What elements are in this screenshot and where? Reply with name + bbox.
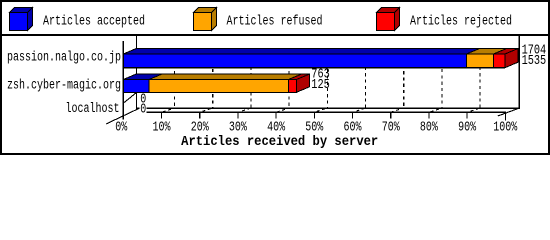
svg-text:10%: 10% [153,120,172,135]
gridline 90% [479,48,481,108]
svg-text:90%: 90% [458,120,477,135]
gridline 50% [326,48,328,108]
x tick 20% [199,113,201,119]
legend cube red rejected [377,8,400,31]
legend cube blue accepted [10,8,33,31]
gridline 40% [288,48,290,108]
gridline 30% [250,48,252,108]
svg-text:0: 0 [140,103,146,118]
svg-text:80%: 80% [420,120,439,135]
svg-text:localhost: localhost [66,102,120,117]
svg-text:50%: 50% [305,120,324,135]
svg-text:passion.nalgo.co.jp: passion.nalgo.co.jp [7,50,121,65]
svg-text:20%: 20% [191,120,210,135]
gridline 70% [403,48,405,108]
gridline 80% [441,48,443,108]
gridline 10% [174,48,176,108]
front y-axis [123,41,124,120]
x tick 50% [313,113,315,119]
gridline 60% [365,48,367,108]
x tick 40% [275,113,277,119]
right frame line (back 100%) [519,36,520,109]
svg-text:Articles refused: Articles refused [227,15,323,30]
svg-text:1535: 1535 [522,54,547,69]
svg-text:40%: 40% [267,120,286,135]
svg-text:100%: 100% [493,120,518,135]
x tick 30% [237,113,239,119]
gridline 20% [212,48,214,108]
svg-text:zsh.cyber-magic.org: zsh.cyber-magic.org [7,78,121,93]
back y-axis [136,36,137,109]
x tick 100% [504,113,506,121]
legend separator line [0,34,550,36]
right corner diagonal [498,108,519,116]
x tick 60% [352,113,354,119]
svg-text:Articles accepted: Articles accepted [43,15,145,30]
back x baseline [136,107,520,108]
outer border frame [1,1,549,154]
x tick 70% [390,113,392,119]
x tick 90% [466,113,468,119]
white backing for zero labels [140,93,147,113]
svg-text:Articles received by server: Articles received by server [181,135,378,150]
left origin long diagonal [106,108,139,124]
legend cube orange refused [194,8,217,31]
x tick 80% [428,113,430,119]
svg-text:30%: 30% [229,120,248,135]
svg-text:125: 125 [311,78,330,93]
front x baseline [146,111,506,112]
svg-text:70%: 70% [382,120,401,135]
svg-text:Articles rejected: Articles rejected [410,15,512,30]
bar passion.nalgo.co.jp (1704/1535) [123,49,518,68]
bar zsh.cyber-magic.org (763/125) [123,74,309,92]
svg-text:60%: 60% [344,120,363,135]
x tick 10% [161,113,163,119]
localhost zero-bar diagonal [123,92,136,103]
svg-text:0%: 0% [115,120,128,135]
